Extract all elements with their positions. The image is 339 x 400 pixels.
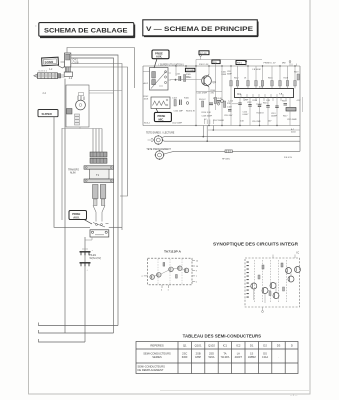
- pin stubs under IC: [244, 98, 286, 102]
- right edge stub: [302, 97, 304, 112]
- wire from terminal strip down (net G1): [64, 79, 66, 333]
- internal transistor q-c: [270, 283, 276, 289]
- svg-text:AUX.: AUX.: [73, 215, 80, 219]
- label PILES: [90, 255, 102, 260]
- rectifier stack row 1: [90, 152, 107, 157]
- label box PRISE MIC: [154, 109, 171, 122]
- svg-text:D: D: [291, 343, 293, 347]
- svg-text:C102 10MF: C102 10MF: [172, 123, 183, 125]
- svg-text:C112: C112: [247, 102, 251, 104]
- TA internal transistor t-b: [157, 273, 162, 278]
- svg-text:— 1 —: — 1 —: [290, 394, 298, 397]
- internal transistor q-f: [295, 267, 301, 273]
- svg-text:D2: D2: [263, 343, 267, 347]
- svg-text:MW: MW: [282, 63, 286, 65]
- svg-text:SCHEMA DE CABLAGE: SCHEMA DE CABLAGE: [44, 28, 128, 35]
- label box PRISE AUX (left): [69, 211, 92, 225]
- internal transistor q-b: [262, 288, 268, 294]
- svg-text:R118: R118: [284, 78, 288, 80]
- svg-text:TA7113P A: TA7113P A: [164, 249, 182, 253]
- pin stub top: [272, 255, 274, 259]
- node circle right: [221, 100, 224, 103]
- wire net S1: [54, 117, 90, 228]
- svg-text:9V(6x1,5V): 9V(6x1,5V): [90, 258, 102, 260]
- left rail: [142, 66, 144, 126]
- svg-text:HF 40KC: HF 40KC: [222, 159, 231, 161]
- svg-text:C108 30MF: C108 30MF: [202, 116, 213, 118]
- capacitor C109b: [228, 110, 232, 112]
- resistor R106: [174, 98, 190, 107]
- label R104: [211, 90, 217, 94]
- svg-text:2SB: 2SB: [196, 352, 201, 356]
- capacitor row below IC c2: [248, 98, 251, 126]
- secondary winding bar 2: [100, 185, 106, 206]
- svg-text:PRISE D. 5V: PRISE D. 5V: [264, 63, 277, 65]
- svg-text:C105 47MF: C105 47MF: [197, 93, 208, 95]
- label C4-1 C10B: [73, 59, 79, 65]
- wire loop to bus 1: [89, 90, 122, 92]
- svg-text:SYNOPTIQUE DES CIRCUITS INT: SYNOPTIQUE DES CIRCUITS INTEGR: [213, 242, 299, 247]
- internal dashed rail 3: [270, 260, 272, 303]
- svg-text:S101-1: S101-1: [144, 123, 150, 125]
- table row semi-conducteurs remplacement: [138, 365, 166, 373]
- TA pin stub left: [142, 276, 148, 278]
- test point stub 2: [245, 61, 247, 66]
- internal wire w-b: [268, 290, 270, 292]
- label row under IC 1: [228, 100, 301, 103]
- internal wire w-c: [275, 283, 277, 293]
- svg-text:D3: D3: [277, 343, 281, 347]
- top supply bus: [143, 65, 300, 67]
- vertical wire x186: [185, 66, 187, 68]
- capacitor C101: [176, 74, 182, 82]
- svg-text:630F: 630F: [182, 355, 188, 359]
- resistor R114: [244, 66, 249, 89]
- wire net S2: [61, 128, 63, 220]
- resistor R112: [234, 66, 239, 89]
- capacitor row below IC c1: [238, 98, 241, 126]
- wire bus A (top): [67, 48, 135, 54]
- wire battery net: [84, 237, 86, 342]
- TA pin stub p5: [192, 281, 198, 283]
- TA internal dashed rail b: [169, 259, 171, 284]
- svg-text:PILES: PILES: [90, 255, 97, 257]
- rectifier stack row 2: [90, 158, 107, 163]
- TA pin stub p12: [192, 260, 199, 262]
- svg-text:C-95: C-95: [266, 100, 270, 102]
- transformer T1: [84, 166, 114, 183]
- node mic: [186, 102, 189, 105]
- wire seg y104: [232, 103, 238, 105]
- internal dashed rail 2: [262, 260, 264, 303]
- battery cell B1: [80, 249, 94, 255]
- internal resistor r-b: [269, 292, 271, 296]
- wire loop to comb tie: [79, 127, 81, 129]
- svg-text:PRISE: PRISE: [155, 51, 163, 55]
- svg-text:C116 50V: C116 50V: [224, 115, 233, 117]
- TA pin stub p10: [192, 266, 199, 268]
- circuit board edge connector J1: [65, 53, 71, 72]
- capacitor block on loop: [67, 109, 73, 115]
- motor terminal ticks: [78, 96, 84, 100]
- terminal strip: [34, 71, 65, 79]
- wire switch to bus: [109, 226, 122, 228]
- connector block SONO: [42, 57, 59, 66]
- pin marks column: [247, 262, 249, 298]
- internal wire w-a: [249, 286, 251, 288]
- label box tone control VR2: [212, 60, 220, 64]
- svg-text:526A: 526A: [208, 355, 214, 359]
- vertical wire x215: [215, 64, 217, 110]
- svg-text:R.E 4.5V: R.E 4.5V: [284, 157, 293, 159]
- internal resistor r-a: [258, 275, 260, 279]
- resistor hang x295: [294, 66, 296, 89]
- jack switch S101: [150, 68, 172, 91]
- junction dots ground bus: [195, 125, 277, 126]
- capacitor row below IC c4: [266, 98, 269, 126]
- svg-text:Q101: Q101: [195, 343, 202, 347]
- funnel wires to power switch: [93, 206, 105, 222]
- svg-text:TETE D'EFFACEMENT: TETE D'EFFACEMENT: [146, 148, 171, 151]
- right rail: [299, 66, 301, 151]
- junction dot d1: [203, 136, 205, 138]
- motor loop frame: [66, 85, 89, 127]
- svg-text:( SUPER UTILISATION ): ( SUPER UTILISATION ): [159, 64, 185, 67]
- svg-text:R114: R114: [253, 100, 257, 102]
- motor M1: [76, 100, 86, 110]
- TA pin stub p9: [192, 270, 198, 272]
- upper wire segment: [196, 59, 262, 61]
- svg-text:V — SCHEMA DE PRINCIPE: V — SCHEMA DE PRINCIPE: [146, 26, 254, 33]
- svg-text:R101 1.5K: R101 1.5K: [199, 64, 209, 66]
- erase head TE2: [155, 150, 165, 160]
- collector wire Q1: [208, 66, 210, 75]
- svg-text:TRANSFO: TRANSFO: [68, 169, 79, 172]
- test point stub 1: [200, 55, 202, 60]
- TA internal transistor t-e: [184, 268, 189, 273]
- internal transistor q-a: [251, 283, 257, 289]
- wire drop 2: [206, 126, 208, 142]
- label box S103: [236, 61, 246, 65]
- svg-text:Q102: Q102: [208, 343, 215, 347]
- svg-text:DS: DS: [263, 352, 267, 356]
- record head TE1: [148, 135, 164, 145]
- internal wire w-e: [264, 294, 266, 304]
- internal dashed rail 4: [278, 260, 280, 303]
- label box volume control VR1: [185, 68, 195, 72]
- resistor ladder R113: [227, 66, 233, 126]
- emitter wire Q1: [208, 87, 210, 126]
- svg-text:R116: R116: [268, 78, 272, 80]
- svg-text:R112: R112: [234, 78, 238, 80]
- svg-text:C10B: C10B: [73, 62, 79, 65]
- sub connector 4-2: [64, 72, 73, 80]
- wire drop 1: [202, 126, 204, 137]
- wire bus D: [71, 64, 122, 231]
- wire head net 2: [163, 140, 301, 143]
- internal wire w-d: [290, 274, 292, 277]
- svg-text:C115 30MF: C115 30MF: [287, 119, 298, 121]
- resistor R108: [199, 99, 206, 107]
- svg-text:C.B 300M: C.B 300M: [252, 69, 261, 71]
- capacitor C103: [172, 98, 181, 106]
- pin stubs under block: [205, 120, 214, 125]
- TA internal transistor t-c: [169, 267, 174, 272]
- svg-text:PRISE: PRISE: [158, 114, 166, 118]
- resistor hang x287.5: [284, 66, 289, 89]
- svg-text:100MF: 100MF: [271, 115, 278, 117]
- label box SUPER: [38, 110, 58, 117]
- comb wires into rectifier stack: [93, 129, 102, 153]
- TA internal transistor t-d: [178, 266, 183, 271]
- svg-text:Q1: Q1: [213, 80, 217, 84]
- bold label box VOL3: [199, 51, 209, 55]
- resistor horizontal R120: [286, 98, 296, 126]
- vertical wire x196: [195, 60, 197, 126]
- svg-text:S101-2: S101-2: [199, 99, 206, 101]
- svg-text:R.P 42K: R.P 42K: [200, 53, 207, 55]
- svg-text:AUX.: AUX.: [156, 55, 162, 59]
- bottom wire H3: [39, 339, 86, 342]
- resistor block in loop: [75, 114, 80, 125]
- svg-text:IC1: IC1: [237, 93, 242, 96]
- svg-text:4400T: 4400T: [235, 355, 243, 359]
- svg-text:R108 4.7K: R108 4.7K: [186, 111, 196, 113]
- svg-text:R116 1K: R116 1K: [257, 113, 265, 115]
- svg-text:SEMI-CONDUCTEURS: SEMI-CONDUCTEURS: [138, 365, 166, 369]
- svg-text:SERIES: SERIES: [152, 355, 162, 359]
- wire head net 3: [164, 151, 300, 154]
- svg-text:Q1: Q1: [183, 343, 187, 347]
- resistor hang x272: [268, 66, 273, 89]
- label C106: [221, 72, 227, 76]
- svg-text:LA: LA: [237, 352, 240, 356]
- label row under IC 2: [240, 121, 272, 124]
- internal transistor q-d: [273, 293, 279, 299]
- svg-text:P.M.V: P.M.V: [237, 63, 243, 65]
- comb tie wire: [62, 128, 102, 130]
- wire bus A vertical: [134, 48, 136, 89]
- vertical wire x222: [221, 66, 223, 126]
- svg-text:DE REMPLACEMENT: DE REMPLACEMENT: [138, 368, 164, 372]
- table grid: [136, 342, 298, 374]
- pin stub bottom: [262, 307, 264, 313]
- battery cell B2: [80, 263, 91, 272]
- svg-text:186P: 186P: [195, 355, 201, 359]
- svg-text:C107 100MF: C107 100MF: [213, 120, 225, 122]
- wire SONO to board: [61, 61, 65, 63]
- svg-text:PRISE: PRISE: [72, 212, 80, 216]
- resistor hang x280: [279, 66, 281, 89]
- internal resistor r-d: [262, 265, 264, 269]
- resistor hang x262.5: [261, 66, 263, 89]
- label R105 56K: [186, 74, 192, 78]
- wire section divider: [196, 91, 222, 93]
- svg-text:MIC.: MIC.: [159, 117, 165, 121]
- test point stub 3: [289, 61, 291, 66]
- svg-text:IC: IC: [297, 251, 300, 255]
- capacitor row below IC c3: [258, 98, 261, 126]
- svg-text:4.5V: 4.5V: [259, 87, 264, 89]
- svg-text:R115: R115: [263, 103, 267, 105]
- capacitor C107b: [217, 101, 221, 103]
- svg-text:2SD: 2SD: [209, 352, 214, 356]
- page bottom shadow: [160, 390, 309, 392]
- TA internal wire a: [155, 275, 157, 278]
- TA internal resistor ra: [163, 263, 165, 267]
- table row semi-conducteurs series: [143, 352, 279, 360]
- labels below IC: [243, 112, 298, 122]
- svg-text:R110 3.3K: R110 3.3K: [202, 112, 212, 114]
- TA internal wire c: [173, 267, 177, 270]
- TA internal resistor rb: [176, 275, 178, 279]
- bus tick marks: [292, 64, 297, 67]
- internal dashed rail 5: [286, 260, 288, 303]
- svg-text:1088M: 1088M: [248, 355, 256, 359]
- node n2: [217, 103, 219, 105]
- junction dots top bus: [175, 65, 295, 66]
- svg-text:C104 2MF: C104 2MF: [174, 111, 184, 113]
- svg-text:C-110: C-110: [228, 101, 233, 103]
- internal transistor q-e: [286, 268, 292, 274]
- resistor R119 vertical: [294, 72, 299, 81]
- internal dashed rail 1: [254, 260, 256, 303]
- TA pin stub bottom 2: [168, 285, 170, 292]
- wire bus C: [71, 58, 114, 333]
- svg-text:ALIM: ALIM: [70, 172, 75, 175]
- TA internal wire d: [182, 269, 184, 270]
- label B+: [291, 128, 296, 134]
- svg-text:R117: R117: [283, 116, 287, 118]
- title box: V - SCHEMA DE PRINCIPE: [143, 20, 258, 37]
- svg-text:0.0047: 0.0047: [243, 114, 249, 116]
- IC TA7113P dashed boundary: [148, 258, 192, 285]
- wire head net 1: [162, 136, 300, 139]
- transformer T1 label: [68, 169, 79, 175]
- svg-text:R119: R119: [294, 72, 298, 74]
- resistor R103: [184, 75, 193, 82]
- TA pin stub p7: [192, 276, 198, 278]
- TA internal transistor t-a: [150, 275, 155, 280]
- svg-text:30MF: 30MF: [227, 73, 233, 75]
- internal resistor r-e: [281, 263, 283, 267]
- svg-text:SEMI-CONDUCTEURS: SEMI-CONDUCTEURS: [143, 352, 171, 356]
- node dot N1: [175, 79, 177, 81]
- svg-text:131A: 131A: [262, 355, 268, 359]
- svg-text:D1: D1: [250, 343, 254, 347]
- internal transistor q-g: [288, 276, 294, 282]
- svg-text:TA: TA: [223, 352, 226, 356]
- secondary winding bar 1: [93, 185, 99, 206]
- svg-text:100K: 100K: [144, 98, 149, 100]
- svg-text:T.A: T.A: [279, 93, 283, 96]
- svg-text:IC2: IC2: [236, 343, 241, 347]
- svg-text:SUPER: SUPER: [42, 112, 53, 116]
- wire bus E: [71, 67, 128, 196]
- motor connector tab: [79, 93, 84, 96]
- resistor R111: [224, 101, 233, 109]
- TA internal dashed rail c: [181, 259, 183, 284]
- jack switch S102: [151, 97, 170, 109]
- wire mid segment: [143, 71, 150, 73]
- svg-text:7113PA: 7113PA: [220, 355, 229, 359]
- power switch S2: [90, 230, 109, 237]
- junction dot d3: [213, 129, 215, 131]
- TA internal dashed rail a: [157, 259, 159, 284]
- vertical wire x176: [175, 66, 177, 76]
- switch contact marks: [93, 223, 109, 228]
- wire switch to battery net: [85, 237, 92, 240]
- internal resistor r-c: [283, 287, 285, 291]
- wire seg y104b: [256, 103, 262, 105]
- IC1 amplifier: [235, 89, 294, 98]
- capacitor C107: [209, 103, 213, 105]
- base wire to Q1: [170, 79, 202, 81]
- internal wire w-f: [253, 289, 255, 300]
- resistor R109v: [214, 98, 216, 104]
- svg-text:': ': [36, 25, 37, 30]
- svg-text:REPERES: REPERES: [150, 343, 164, 347]
- capacitor row below IC c5: [275, 98, 278, 126]
- label box PRISE AUX (schematic): [152, 50, 169, 68]
- transistor Q1: [202, 75, 217, 88]
- oscillator coil L1: [225, 150, 232, 153]
- table header row: [150, 343, 293, 347]
- svg-text:IC1: IC1: [223, 343, 228, 347]
- svg-text:5 4 3 2 1: 5 4 3 2 1: [39, 71, 48, 73]
- svg-text:C114 2MF: C114 2MF: [252, 121, 262, 123]
- svg-text:R118: R118: [282, 101, 286, 103]
- svg-text:VOLUME: VOLUME: [186, 70, 194, 72]
- resistor R115: [252, 66, 261, 89]
- bottom wire H1: [39, 323, 119, 326]
- IC internal dashed boundary: [245, 258, 300, 307]
- junction dot d2: [206, 140, 208, 142]
- svg-text:SONO: SONO: [45, 60, 54, 64]
- svg-text:TABLEAU DES SEMI-CONDUCTEURS: TABLEAU DES SEMI-CONDUCTEURS: [183, 333, 262, 338]
- wire drop 3: [212, 126, 214, 131]
- wire bus B: [71, 55, 118, 326]
- bottom ground bus: [143, 125, 300, 127]
- label R110 C108: [202, 112, 213, 121]
- svg-text:TETE ENREG. / LECTURE: TETE ENREG. / LECTURE: [146, 132, 175, 134]
- SONO pointer: [57, 65, 65, 68]
- TA internal wire b: [161, 270, 169, 274]
- capacitor C114: [284, 104, 288, 106]
- svg-text:2SC: 2SC: [182, 352, 187, 356]
- svg-text:1S: 1S: [250, 352, 253, 356]
- title box: SCHEMA DE CABLAGE: [36, 23, 135, 38]
- wire loop to bus 2: [89, 92, 114, 94]
- TA pin stub bottom 1: [161, 285, 163, 292]
- wire osc net: [208, 129, 300, 131]
- bottom wire H2: [39, 330, 114, 333]
